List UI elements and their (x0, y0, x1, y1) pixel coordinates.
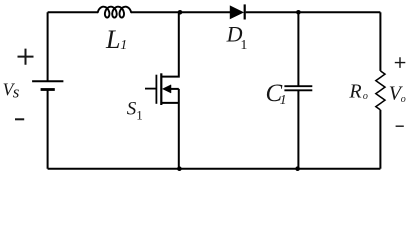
wire capacitor lower (297, 90, 299, 168)
label Ro (348, 81, 368, 103)
label Vo (389, 82, 406, 105)
junction drain tap (178, 10, 183, 15)
resistor Ro (376, 71, 385, 110)
capacitor C1 (284, 86, 312, 90)
wire capacitor upper (297, 12, 299, 86)
label L1 (105, 25, 127, 54)
transistor S1 drain wire (161, 12, 179, 76)
wire right rail upper (379, 12, 381, 71)
label + output (395, 57, 406, 68)
source Vs battery (32, 81, 63, 89)
transistor S1 source stub (161, 102, 179, 104)
transistor S1 body arrow (163, 85, 172, 93)
wire left rail upper (47, 12, 49, 81)
transistor S1 body lead (171, 88, 179, 90)
svg-text:1: 1 (136, 107, 143, 122)
wire left rail lower (47, 90, 49, 169)
label minus source (15, 118, 24, 120)
wire top rail left segment (48, 11, 98, 13)
svg-text:R: R (348, 81, 361, 103)
transistor S1 gate lead (145, 88, 156, 90)
junction capacitor bottom (295, 166, 300, 171)
transistor S1 source wire (178, 89, 180, 169)
svg-text:s: s (13, 83, 20, 102)
svg-text:o: o (363, 91, 368, 102)
junction capacitor tap (296, 10, 301, 15)
wire right rail lower (379, 110, 381, 169)
svg-text:o: o (401, 94, 406, 105)
junction source bottom (177, 166, 182, 171)
transistor S1 gate bar (155, 75, 157, 104)
label Vs (3, 80, 20, 102)
svg-text:1: 1 (120, 38, 127, 53)
wire top rail right segment (246, 11, 381, 13)
label D1 (226, 22, 248, 54)
svg-text:L: L (105, 25, 120, 54)
diode D1 (230, 4, 245, 19)
transistor S1 channel bar (160, 73, 162, 105)
label S1 (127, 98, 143, 122)
label C1 (266, 80, 287, 108)
wire top rail middle segment (131, 11, 230, 13)
svg-text:1: 1 (240, 38, 247, 53)
svg-text:1: 1 (280, 93, 287, 108)
inductor L1 (98, 7, 131, 18)
label + source (18, 49, 34, 65)
wire bottom rail (48, 168, 381, 170)
label minus output (396, 125, 404, 127)
